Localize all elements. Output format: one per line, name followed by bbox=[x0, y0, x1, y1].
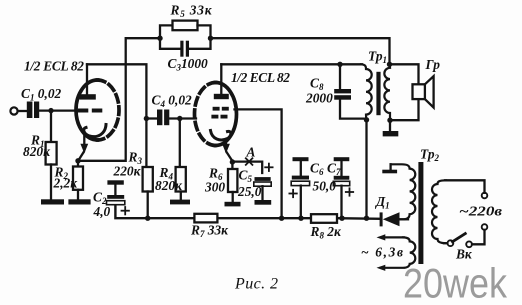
capacitor C7 bbox=[340, 161, 342, 176]
svg-text:4,0: 4,0 bbox=[93, 204, 111, 219]
ground above C7 bbox=[334, 157, 350, 161]
node C6 rail bbox=[298, 216, 303, 221]
node C7 rail bbox=[339, 216, 344, 221]
transformer Tp1 core bbox=[376, 72, 380, 115]
anode lead tube V1 bbox=[86, 64, 88, 94]
wire to R5 top branch bbox=[160, 25, 173, 38]
heater lead top arrow bbox=[382, 236, 404, 238]
svg-text:1/2 ECL 82: 1/2 ECL 82 bbox=[231, 70, 290, 85]
ground Tp1 secondary bbox=[383, 131, 399, 136]
capacitor C5 bbox=[255, 177, 271, 181]
node C8 top bbox=[337, 62, 342, 67]
ground above C6 bbox=[293, 157, 309, 161]
transformer Tp2 mains winding bbox=[432, 180, 446, 243]
transformer Tp2 heater winding bbox=[381, 237, 415, 267]
feedback wire cathode to R5C3 bbox=[78, 38, 160, 161]
mains terminal bottom bbox=[482, 224, 488, 230]
svg-text:25,0: 25,0 bbox=[237, 184, 262, 199]
svg-text:C31000: C31000 bbox=[168, 56, 209, 73]
wire junction to R1 bbox=[50, 111, 52, 142]
svg-text:А: А bbox=[246, 145, 256, 160]
ground under R4 bbox=[170, 200, 190, 205]
grid dashes tube V1 bbox=[78, 109, 103, 113]
plus sign C6 bbox=[289, 190, 296, 197]
wire R2 to ground bbox=[77, 190, 79, 200]
node grid1 junction bbox=[48, 108, 53, 113]
transformer Tp1 primary winding bbox=[361, 64, 372, 120]
node R4 top bbox=[177, 116, 182, 121]
anode rail V2 to Tp1 bbox=[221, 63, 362, 65]
resistor R2 bbox=[73, 167, 83, 190]
transformer Tp1 secondary winding bbox=[384, 64, 390, 120]
cathode lead with arrow tube V1 bbox=[83, 136, 85, 146]
svg-text:820к: 820к bbox=[23, 144, 51, 159]
wire C3 to right node bbox=[189, 38, 211, 49]
plus sign C2 bbox=[122, 207, 129, 214]
wire to ground Tp1 bbox=[389, 120, 391, 131]
resistor R6 bbox=[228, 169, 237, 192]
svg-text:20wek: 20wek bbox=[403, 260, 508, 305]
plus sign C7 bbox=[346, 188, 353, 195]
wire node to R3 bbox=[145, 119, 147, 168]
wire switch to winding bbox=[444, 242, 447, 244]
mains wire bottom bbox=[472, 230, 485, 244]
cathode tube V1 bbox=[84, 125, 106, 137]
switch Vk right contact bbox=[466, 241, 472, 247]
wire HV top to ground bbox=[389, 164, 391, 169]
svg-text:1/2 ECL 82: 1/2 ECL 82 bbox=[24, 59, 84, 74]
capacitor C1 bbox=[27, 102, 39, 119]
feedback rail to Tp1 secondary bbox=[211, 38, 390, 64]
resistor R4 bbox=[176, 167, 186, 192]
capacitor C2 ground bar bbox=[107, 180, 123, 184]
mains terminal top bbox=[482, 193, 488, 199]
wire C5 to ground bbox=[261, 186, 263, 200]
svg-text:2000: 2000 bbox=[305, 91, 333, 106]
wire anode V1 to C4 and R3 bbox=[87, 64, 146, 118]
wire node to C4 bbox=[146, 117, 157, 119]
node Tp1 secondary bottom bbox=[387, 118, 392, 123]
heater lead bottom arrow bbox=[377, 265, 386, 271]
wire C4 to grid tube V2 bbox=[169, 117, 196, 119]
node Tp1 secondary top bbox=[387, 62, 392, 67]
transformer Tp2 core bbox=[418, 162, 423, 264]
capacitor C3 bbox=[180, 41, 189, 57]
svg-text:2,2к: 2,2к bbox=[53, 176, 79, 191]
plus sign C5 bbox=[265, 164, 272, 171]
wire C1 to grid of tube1 bbox=[39, 109, 77, 111]
svg-text:50,0: 50,0 bbox=[313, 179, 337, 194]
capacitor C8 bbox=[334, 89, 351, 100]
wire diode to Tp2 HV winding bbox=[400, 218, 409, 220]
tube V1 triode 1/2 ECL82 envelope (solid left) bbox=[76, 80, 98, 140]
wire C8 top bbox=[339, 64, 341, 89]
wire cathode node to R2 bbox=[77, 161, 79, 167]
mains wire top bbox=[445, 180, 485, 193]
ground Tp2 HV bbox=[382, 170, 397, 174]
anode bar tube V2 bbox=[214, 94, 229, 99]
wire primary bottom to rail bbox=[365, 120, 367, 218]
wire to C3 bottom branch bbox=[160, 38, 181, 49]
tube V2 pentode 1/2 ECL82 envelope (dashed left) bbox=[195, 83, 216, 146]
ground under R1 bbox=[41, 199, 64, 204]
anode lead tube V2 bbox=[220, 64, 222, 94]
svg-text:220к: 220к bbox=[113, 164, 142, 179]
svg-text:C7: C7 bbox=[327, 161, 341, 178]
svg-text:R8 2к: R8 2к bbox=[310, 224, 342, 241]
node Tp1 rail bbox=[364, 216, 369, 221]
wire R4 bbox=[179, 119, 181, 168]
B+ rail bottom bbox=[115, 205, 311, 219]
capacitor C6 bbox=[300, 161, 302, 175]
cathode node tube V1 bbox=[75, 158, 80, 163]
tube V1 envelope (dashed right) bbox=[98, 80, 119, 140]
screen grid wire tube V2 to rail bbox=[235, 109, 282, 218]
transformer Tp2 HV winding bbox=[391, 164, 416, 219]
wire R4 to ground bbox=[180, 192, 182, 200]
svg-text:Д1: Д1 bbox=[374, 194, 390, 211]
test point A cross bbox=[246, 158, 253, 165]
node Tp1 primary bottom bbox=[364, 117, 369, 122]
speaker frame bbox=[413, 84, 425, 99]
input terminal bbox=[10, 107, 17, 114]
wire speaker bottom bbox=[390, 99, 419, 120]
capacitor C2 bbox=[114, 185, 116, 195]
node R3 rail bbox=[145, 216, 150, 221]
diode D1 cathode bar bbox=[380, 212, 383, 226]
svg-text:R7 33к: R7 33к bbox=[190, 223, 229, 240]
ground under C5 bbox=[255, 200, 272, 205]
svg-text:R5 33к: R5 33к bbox=[170, 3, 213, 20]
ground under R6 bbox=[225, 202, 241, 207]
svg-text:C5: C5 bbox=[239, 168, 253, 185]
svg-text:C6: C6 bbox=[310, 161, 324, 178]
resistor R8 bbox=[311, 214, 337, 223]
cathode node tube V2 bbox=[230, 159, 235, 164]
svg-text:~ 6,3в: ~ 6,3в bbox=[361, 245, 403, 260]
wire cathode node to R6 bbox=[231, 162, 233, 169]
cathode lead with arrow tube V2 bbox=[225, 139, 227, 146]
switch Vk left contact bbox=[448, 240, 454, 246]
resistor R1 bbox=[46, 142, 57, 165]
svg-text:Рис. 2: Рис. 2 bbox=[234, 275, 278, 292]
node R5C3 right bbox=[208, 36, 213, 41]
diode D1 triangle bbox=[383, 212, 400, 226]
svg-text:300: 300 bbox=[204, 180, 225, 195]
resistor R7 bbox=[194, 214, 217, 223]
svg-text:C1 0,02: C1 0,02 bbox=[21, 86, 62, 103]
resistor R5 bbox=[173, 21, 198, 31]
resistor R3 bbox=[143, 167, 153, 192]
wire R5 to right node bbox=[198, 25, 211, 38]
wire secondary top to speaker bbox=[390, 64, 419, 84]
wire C8 bottom bbox=[340, 100, 367, 119]
ground under R2 bbox=[68, 199, 90, 204]
wire input to C1 bbox=[18, 110, 27, 112]
node screen rail bbox=[279, 216, 284, 221]
node C4 left bbox=[144, 116, 149, 121]
tube V2 envelope (solid right) bbox=[216, 83, 237, 146]
svg-text:C4 0,02: C4 0,02 bbox=[152, 93, 193, 110]
capacitor C4 bbox=[157, 110, 169, 126]
anode bar tube V1 bbox=[79, 94, 95, 99]
svg-text:~220в: ~220в bbox=[459, 204, 502, 219]
switch Vk lever bbox=[453, 234, 466, 242]
svg-text:Тр2: Тр2 bbox=[420, 147, 440, 164]
svg-text:820к: 820к bbox=[155, 178, 183, 193]
wire R3 to rail bbox=[147, 192, 149, 219]
cathode tube V2 bbox=[211, 131, 231, 140]
wire R1 to ground bbox=[50, 165, 52, 200]
svg-text:Тр1: Тр1 bbox=[368, 49, 387, 66]
svg-text:Гр: Гр bbox=[425, 57, 441, 72]
wire R6 to ground bbox=[232, 192, 234, 202]
node R5C3 left bbox=[157, 36, 162, 41]
speaker horn bbox=[425, 76, 434, 107]
wire cathode to test point and C5 bbox=[232, 162, 262, 173]
grid dashes row1 tube V2 bbox=[211, 107, 228, 119]
